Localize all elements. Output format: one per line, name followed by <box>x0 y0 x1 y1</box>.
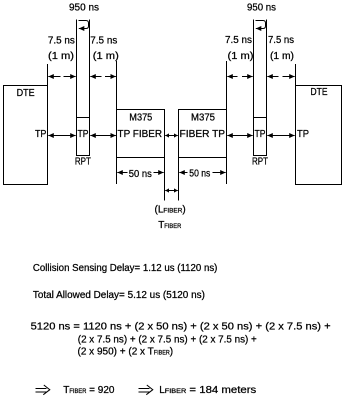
svg-text:DTE: DTE <box>311 87 328 98</box>
svg-text:DTE: DTE <box>17 88 35 99</box>
svg-text:(2 x 7.5 ns) + (2 x 7.5 ns) +: (2 x 7.5 ns) + (2 x 7.5 ns) + (2 x 7.5 n… <box>78 335 257 346</box>
svg-text:950 ns: 950 ns <box>69 3 99 14</box>
svg-text:(1 m): (1 m) <box>48 51 74 62</box>
svg-text:TFIBER: TFIBER <box>158 220 181 231</box>
svg-text:(1 m): (1 m) <box>270 51 294 62</box>
svg-text:7.5 ns: 7.5 ns <box>268 35 294 46</box>
svg-text:(1 m): (1 m) <box>228 51 254 62</box>
svg-text:RPT: RPT <box>75 157 91 168</box>
svg-text:(2 x 950) + (2 x TFIBER): (2 x 950) + (2 x TFIBER) <box>78 347 174 358</box>
svg-text:TP: TP <box>35 129 47 140</box>
svg-text:(1 m): (1 m) <box>93 51 119 62</box>
svg-text:TFIBER = 920: TFIBER = 920 <box>63 385 115 396</box>
svg-text:FIBER TP: FIBER TP <box>180 129 226 140</box>
svg-text:RPT: RPT <box>252 157 268 168</box>
svg-text:950 ns: 950 ns <box>247 3 276 14</box>
svg-text:TP: TP <box>78 129 89 140</box>
svg-text:Collision Sensing Delay= 1.12: Collision Sensing Delay= 1.12 us (1120 n… <box>33 263 218 274</box>
svg-text:Total Allowed Delay= 5.12 us (: Total Allowed Delay= 5.12 us (5120 ns) <box>33 290 205 301</box>
svg-text:TP FIBER: TP FIBER <box>118 129 163 140</box>
svg-text:M375: M375 <box>191 113 215 124</box>
svg-text:TP: TP <box>297 129 309 140</box>
svg-text:50 ns: 50 ns <box>189 168 210 179</box>
svg-text:M375: M375 <box>129 113 152 124</box>
svg-text:(LFIBER): (LFIBER) <box>155 205 186 216</box>
svg-text:7.5 ns: 7.5 ns <box>90 36 117 47</box>
svg-text:7.5 ns: 7.5 ns <box>225 35 252 46</box>
svg-text:TP: TP <box>255 129 266 140</box>
svg-text:7.5 ns: 7.5 ns <box>48 36 75 47</box>
svg-text:LFIBER = 184 meters: LFIBER = 184 meters <box>159 385 256 396</box>
svg-text:50 ns: 50 ns <box>129 169 152 180</box>
svg-text:5120 ns = 1120 ns + (2 x 50 ns: 5120 ns = 1120 ns + (2 x 50 ns) + (2 x 5… <box>31 322 331 333</box>
